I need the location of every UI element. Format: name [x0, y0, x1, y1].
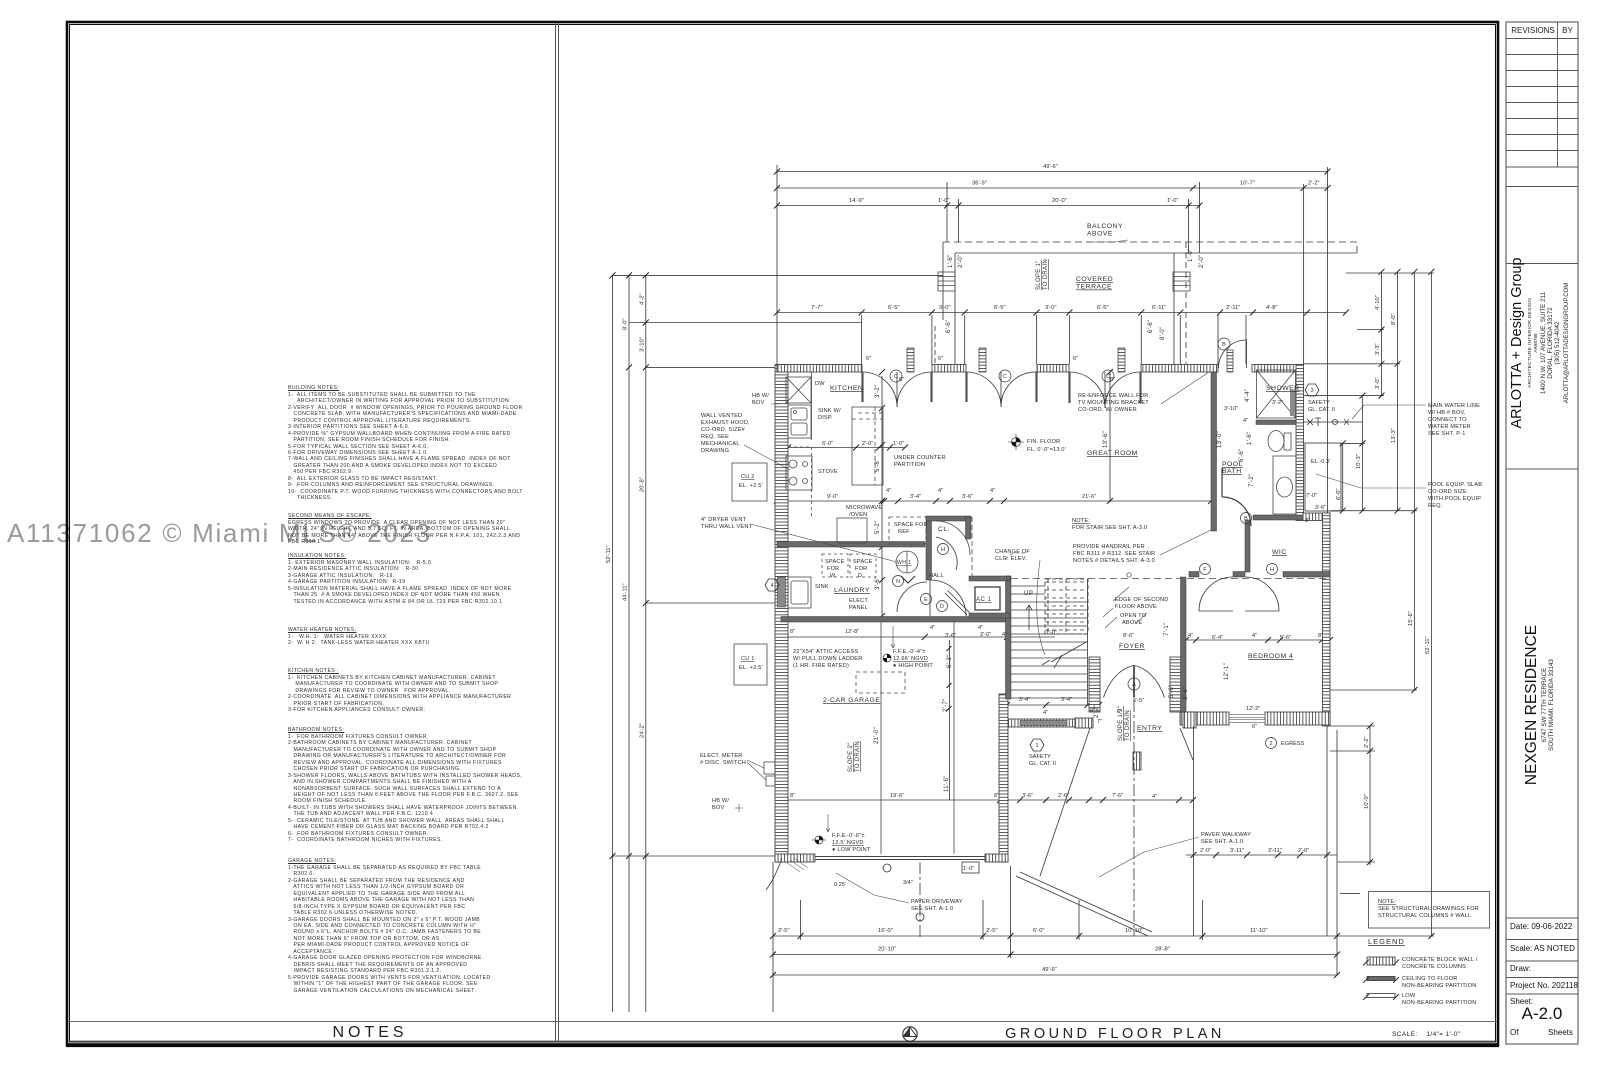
svg-text:8": 8" — [790, 793, 795, 799]
svg-text:REQ. SEE: REQ. SEE — [701, 434, 729, 440]
svg-text:EGRESS: EGRESS — [1281, 741, 1305, 747]
svg-text:BALCONY: BALCONY — [1087, 223, 1123, 230]
svg-text:6'-0": 6'-0" — [1336, 488, 1342, 500]
svg-text:POOL EQUIP. SLAB: POOL EQUIP. SLAB — [1428, 482, 1482, 488]
svg-text:TO DRAIN: TO DRAIN — [855, 741, 861, 772]
svg-text:4": 4" — [1043, 710, 1048, 716]
kitchen laundry wall — [777, 542, 925, 548]
svg-text:3'-6": 3'-6" — [945, 633, 956, 639]
svg-text:13'-0": 13'-0" — [1217, 431, 1223, 448]
shower box — [1257, 370, 1296, 418]
counter edge — [811, 372, 813, 440]
svg-text:ABOVE: ABOVE — [1122, 620, 1142, 626]
svg-text:28'-8": 28'-8" — [1155, 947, 1170, 953]
svg-text:6'-5": 6'-5" — [1133, 698, 1144, 704]
svg-text:4": 4" — [1002, 632, 1007, 638]
svg-text:7'-1": 7'-1" — [1164, 623, 1170, 636]
svg-text:SINK W/: SINK W/ — [818, 408, 841, 414]
svg-text:EL. +2.5': EL. +2.5' — [739, 665, 763, 671]
svg-text:C: C — [1003, 374, 1007, 380]
svg-text:CU 2: CU 2 — [741, 474, 755, 480]
svg-text:3'-0": 3'-0" — [939, 305, 951, 311]
svg-text:4": 4" — [938, 488, 943, 494]
svg-text:1: 1 — [1035, 743, 1038, 749]
svg-text:7'-0": 7'-0" — [1306, 493, 1317, 499]
bed4 south wall right of window — [1265, 712, 1330, 725]
entry left pier — [1089, 657, 1100, 712]
bottom extension verticals — [772, 862, 774, 1012]
svg-text:WATER METER: WATER METER — [1428, 424, 1471, 430]
svg-text:BOV: BOV — [712, 805, 724, 811]
north wall segment kitchen — [777, 365, 862, 373]
leader lines — [735, 240, 1426, 903]
svg-text:NOTE:: NOTE: — [1378, 899, 1396, 905]
svg-text:4'-8": 4'-8" — [1266, 305, 1278, 311]
garage south wall left block — [775, 854, 815, 862]
svg-text:CEILING TO FLOOR: CEILING TO FLOOR — [1402, 976, 1458, 982]
walkway verticals — [1193, 726, 1195, 936]
garage dim rows — [786, 636, 1056, 638]
svg-text:HB W/: HB W/ — [712, 798, 729, 804]
svg-text:1'-0": 1'-0" — [938, 198, 950, 204]
svg-text:THRU WALL VENT: THRU WALL VENT — [701, 524, 753, 530]
safety glass hexagons — [765, 384, 1319, 751]
svg-text:MICROWAVE: MICROWAVE — [846, 505, 882, 511]
laundry door arc — [897, 582, 927, 612]
bed4 east wall — [1323, 513, 1331, 726]
legend and note box — [1340, 892, 1490, 929]
svg-text:8": 8" — [994, 793, 999, 799]
svg-text:12'-2": 12'-2" — [1246, 706, 1260, 712]
svg-text:3'-2": 3'-2" — [875, 385, 881, 398]
svg-text:PAVER WALKWAY: PAVER WALKWAY — [1201, 832, 1251, 838]
svg-text:SHOWER: SHOWER — [1266, 385, 1300, 392]
garage FFE high symbol — [883, 654, 891, 662]
garage hall door arc — [930, 580, 966, 616]
svg-text:3'-0": 3'-0" — [1375, 377, 1381, 389]
sheet info table lines — [1506, 918, 1578, 994]
svg-text:2'-2": 2'-2" — [1308, 181, 1320, 187]
revisions table — [1506, 22, 1578, 187]
wic west wall — [1245, 520, 1250, 572]
svg-text:PANEL: PANEL — [849, 605, 868, 611]
east wall upper — [1296, 365, 1304, 521]
svg-text:7'-7": 7'-7" — [811, 305, 823, 311]
svg-text:14'-9": 14'-9" — [849, 198, 864, 204]
svg-text:16'-0": 16'-0" — [878, 928, 893, 934]
north wall french door arcs — [862, 340, 1279, 698]
tick marks — [610, 169, 1435, 979]
revisions header text — [1510, 26, 1556, 35]
terrace right edge — [1173, 253, 1175, 364]
laundry garage wall — [781, 617, 1008, 623]
driveway centerline — [919, 862, 921, 940]
pool bath door — [1222, 468, 1251, 526]
svg-text:2'-6": 2'-6" — [1058, 793, 1069, 799]
AC1 box — [975, 587, 1000, 610]
edge of second floor dashed — [1011, 578, 1328, 580]
svg-text:4'-2": 4'-2" — [639, 293, 645, 305]
svg-text:7": 7" — [1097, 719, 1102, 725]
svg-text:SINK: SINK — [815, 584, 829, 590]
svg-text:6'-6": 6'-6" — [1148, 320, 1154, 333]
svg-text:8": 8" — [790, 629, 795, 635]
svg-text:UNDER COUNTER: UNDER COUNTER — [894, 455, 946, 461]
dimension line 14'-9"/20'-0" row — [777, 205, 1200, 207]
svg-text:EXHAUST HOOD,: EXHAUST HOOD, — [701, 420, 750, 426]
svg-text:4": 4" — [1188, 633, 1193, 639]
svg-text:8": 8" — [1090, 708, 1095, 714]
svg-text:6'-0": 6'-0" — [822, 441, 833, 447]
stove — [786, 456, 812, 490]
north wall segment 4 — [1141, 365, 1218, 373]
svg-text:TV MOUNTING BRACKET: TV MOUNTING BRACKET — [1078, 400, 1149, 406]
arlotta + nexgen rotated text — [1500, 0, 1600, 1044]
svg-text:3: 3 — [1310, 388, 1313, 394]
svg-text:3'-6": 3'-6" — [962, 494, 973, 500]
right sidebar outer box — [1506, 22, 1578, 1044]
svg-text:6'-5": 6'-5" — [994, 305, 1006, 311]
svg-text:EL.-0.3': EL.-0.3' — [1311, 459, 1330, 465]
svg-text:SEE SHT. A-1.0: SEE SHT. A-1.0 — [911, 906, 953, 912]
right lower chain — [1369, 726, 1371, 865]
svg-text:2'-0": 2'-0" — [862, 441, 873, 447]
entry double curved doors — [1104, 666, 1165, 698]
kitchen dim row y501 great room — [777, 500, 1211, 502]
toilet — [1268, 431, 1284, 452]
svg-text:GL. CAT. II: GL. CAT. II — [1308, 407, 1335, 413]
svg-text:TO DRAIN: TO DRAIN — [1125, 710, 1131, 741]
svg-text:6': 6' — [1117, 709, 1121, 715]
bed4 south wall left of window — [1180, 712, 1229, 725]
svg-text:2'-5": 2'-5" — [986, 928, 998, 934]
elect meter — [764, 762, 775, 774]
svg-text:WITH POOL EQUIP: WITH POOL EQUIP — [1428, 496, 1481, 502]
svg-text:5'-8": 5'-8" — [875, 459, 881, 472]
svg-text:22"X54" ATTIC ACCESS: 22"X54" ATTIC ACCESS — [793, 649, 858, 655]
svg-text:OPEN TO: OPEN TO — [1120, 613, 1147, 619]
svg-text:(1 HR. FIRE RATED): (1 HR. FIRE RATED) — [793, 663, 849, 669]
svg-text:H: H — [941, 547, 945, 553]
svg-text:CL.: CL. — [938, 526, 950, 533]
ac closet walls — [969, 576, 1010, 581]
svg-text:10'-0": 10'-0" — [1364, 794, 1370, 809]
stair west wall — [1006, 576, 1012, 699]
svg-text:CO-ORD SIZE: CO-ORD SIZE — [1428, 489, 1467, 495]
svg-text:CONCRETE BLOCK WALL /: CONCRETE BLOCK WALL / — [1402, 957, 1478, 963]
svg-text:3'-6": 3'-6" — [1022, 793, 1033, 799]
DW box — [786, 377, 811, 403]
title strip top line — [68, 1021, 1497, 1023]
annotation text blocks — [700, 381, 1482, 912]
svg-text:6": 6" — [866, 356, 871, 362]
balcony above dashed outline — [943, 242, 1357, 253]
svg-text:3'-6": 3'-6" — [1315, 505, 1326, 511]
watermark Miami MLS — [7, 518, 432, 549]
svg-text:20'-10": 20'-10" — [878, 947, 896, 953]
divider notes/plan double line — [555, 23, 557, 1042]
kitchen fixtures — [732, 372, 1010, 854]
svg-text:● LOW POINT: ● LOW POINT — [832, 847, 871, 853]
diagonal door near AC — [945, 591, 970, 616]
svg-text:FOYER: FOYER — [1119, 643, 1145, 650]
north wall segment 2 — [932, 365, 966, 373]
garage door lines — [815, 857, 985, 860]
svg-text:1'-0": 1'-0" — [963, 866, 974, 872]
svg-text:STRUCTURAL COLUMNS # WALL: STRUCTURAL COLUMNS # WALL — [1378, 913, 1471, 919]
svg-text:3'-0": 3'-0" — [980, 632, 991, 638]
svg-text:52'-11": 52'-11" — [1425, 636, 1431, 654]
svg-text:DRAWING: DRAWING — [701, 448, 729, 454]
bed4 door arc — [1199, 577, 1233, 611]
bed4 window dim row — [1186, 854, 1337, 856]
svg-text:2'-11": 2'-11" — [1226, 305, 1240, 311]
svg-text:1'-6": 1'-6" — [948, 255, 954, 268]
svg-text:6'-5": 6'-5" — [1097, 305, 1109, 311]
svg-text:MECHANICAL: MECHANICAL — [701, 441, 740, 447]
svg-text:12'-1": 12'-1" — [1224, 663, 1230, 680]
svg-text:2'-0": 2'-0" — [1200, 848, 1211, 854]
svg-text:49'-6": 49'-6" — [1042, 967, 1057, 973]
svg-text:6'-6": 6'-6" — [946, 320, 952, 333]
pool bath south wall — [1253, 515, 1303, 520]
svg-text:D: D — [858, 573, 862, 579]
svg-text:1'-0": 1'-0" — [1046, 630, 1057, 636]
garage FFE low symbol — [812, 836, 826, 844]
svg-text:ELECT.: ELECT. — [849, 598, 869, 604]
svg-text:2: 2 — [1269, 741, 1272, 747]
svg-text:3'-2": 3'-2" — [1272, 400, 1283, 406]
svg-text:2'-2": 2'-2" — [1364, 736, 1370, 748]
svg-text:3'-4": 3'-4" — [910, 494, 921, 500]
svg-text:6'-0": 6'-0" — [1033, 928, 1045, 934]
attic access dashed — [856, 672, 905, 693]
svg-text:5'-2": 5'-2" — [875, 521, 881, 534]
svg-text:3'-4": 3'-4" — [1061, 697, 1072, 703]
svg-text:W: W — [830, 573, 836, 579]
svg-text:2'-0": 2'-0" — [1298, 848, 1309, 854]
svg-text:1'-0": 1'-0" — [1188, 249, 1194, 262]
entry steps and walkway — [766, 700, 1327, 940]
svg-text:8'-6": 8'-6" — [1123, 633, 1134, 639]
svg-text:● HIGH POINT: ● HIGH POINT — [893, 663, 933, 669]
west wall laundry window — [778, 577, 786, 607]
wic bed4 north wall — [1189, 572, 1199, 578]
svg-text:SPACE: SPACE — [825, 559, 845, 565]
svg-text:52'-11": 52'-11" — [606, 545, 612, 563]
svg-text:SPACE: SPACE — [853, 559, 873, 565]
CU1 box — [734, 644, 767, 685]
svg-text:MAIN WATER LINE: MAIN WATER LINE — [1428, 403, 1480, 409]
svg-text:C: C — [894, 374, 898, 380]
svg-text:6": 6" — [938, 356, 943, 362]
svg-text:3'-10": 3'-10" — [639, 337, 645, 352]
svg-text:W/ HB # BOV,: W/ HB # BOV, — [1428, 410, 1466, 416]
svg-text:FLOOR ABOVE: FLOOR ABOVE — [1115, 604, 1157, 610]
svg-text:6": 6" — [1252, 724, 1257, 730]
svg-text:ENTRY: ENTRY — [1137, 725, 1162, 732]
svg-text:WH 1: WH 1 — [897, 560, 912, 566]
svg-text:10'-3": 10'-3" — [1356, 454, 1362, 469]
svg-text:36'-9": 36'-9" — [972, 181, 987, 187]
svg-text:3'-6": 3'-6" — [1183, 687, 1189, 700]
walkway diagonals — [1016, 872, 1152, 936]
svg-text:SLOPE 2": SLOPE 2" — [848, 742, 854, 772]
svg-text:44'-11": 44'-11" — [623, 583, 629, 601]
garage slope lines — [880, 622, 882, 854]
svg-text:4": 4" — [978, 625, 983, 631]
closet door arc — [936, 537, 957, 570]
bed4 dim row — [1186, 639, 1330, 641]
svg-text:SAFETY: SAFETY — [1029, 754, 1051, 760]
svg-text:TERRACE: TERRACE — [1076, 284, 1112, 291]
svg-text:BATH: BATH — [1222, 468, 1242, 475]
svg-text:HALL: HALL — [929, 573, 944, 579]
svg-text:DISP.: DISP. — [818, 415, 833, 421]
svg-text:8'-0": 8'-0" — [1391, 313, 1397, 325]
svg-text:UP: UP — [1024, 591, 1033, 597]
svg-text:4": 4" — [1252, 633, 1257, 639]
svg-text:FIN. FLOOR: FIN. FLOOR — [1027, 439, 1060, 445]
svg-text:HB W/: HB W/ — [752, 393, 769, 399]
svg-text:4": 4" — [886, 488, 891, 494]
stair hall south wall — [1008, 719, 1089, 727]
pool bath fixtures — [1257, 370, 1297, 514]
closet north wall — [926, 516, 971, 521]
garage east wall — [999, 694, 1008, 862]
svg-text:COVERED: COVERED — [1076, 276, 1113, 283]
CU2 box — [732, 463, 767, 501]
svg-text:2'-0": 2'-0" — [1199, 255, 1205, 268]
rotated left dim labels — [606, 293, 645, 738]
svg-text:SEE STRUCTURAL DRAWINGS FOR: SEE STRUCTURAL DRAWINGS FOR — [1378, 906, 1479, 912]
svg-text:EDGE OF SECOND: EDGE OF SECOND — [1115, 597, 1168, 603]
svg-text:19'-6": 19'-6" — [890, 793, 904, 799]
north wall segment 3 — [1037, 365, 1069, 373]
svg-text:11'-10": 11'-10" — [1250, 928, 1268, 934]
svg-text:3'-11": 3'-11" — [1268, 848, 1282, 854]
sheet info text — [1510, 922, 1572, 931]
svg-text:1'-0": 1'-0" — [893, 441, 904, 447]
svg-text:STOVE: STOVE — [818, 469, 838, 475]
garage south wall right block — [985, 854, 1008, 862]
svg-text:FL. 0'-0"=13.0': FL. 0'-0"=13.0' — [1027, 447, 1066, 453]
svg-text:WALL VENTED: WALL VENTED — [701, 413, 742, 419]
svg-text:REQ.: REQ. — [1428, 503, 1443, 509]
bottom dim labels — [778, 928, 1268, 973]
bed4 egress window — [1229, 715, 1265, 718]
svg-text:E: E — [924, 597, 928, 603]
main water line symbols — [1303, 418, 1362, 426]
svg-text:CO-ORD. SIZE#: CO-ORD. SIZE# — [701, 427, 746, 433]
extension verticals top — [776, 165, 778, 367]
svg-text:LAUNDRY: LAUNDRY — [834, 587, 870, 594]
svg-text:24'-2": 24'-2" — [639, 723, 645, 738]
svg-text:8'-0": 8'-0" — [1160, 327, 1166, 340]
svg-text:2'-0": 2'-0" — [958, 255, 964, 268]
svg-text:SAFETY: SAFETY — [1308, 400, 1330, 406]
svg-text:BEDROOM 4: BEDROOM 4 — [1248, 653, 1293, 660]
svg-text:F: F — [1203, 567, 1207, 573]
svg-text:CO-ORD. W/ OWNER: CO-ORD. W/ OWNER — [1078, 407, 1137, 413]
dimension line 36'-9" row — [777, 187, 1328, 189]
svg-text:8": 8" — [1110, 377, 1115, 383]
svg-text:4": 4" — [990, 488, 995, 494]
svg-text:21'-6": 21'-6" — [1082, 494, 1096, 500]
washer dryer dashed — [822, 554, 848, 577]
bottom dim lines — [773, 935, 1434, 937]
svg-text:5'-6": 5'-6" — [1280, 635, 1291, 641]
svg-text:NON-BEARING PARTITION: NON-BEARING PARTITION — [1402, 1000, 1477, 1006]
svg-text:4": 4" — [1152, 794, 1157, 800]
svg-text:NOTE:: NOTE: — [1072, 518, 1090, 524]
svg-text:REF: REF — [898, 529, 910, 535]
vanity — [1273, 456, 1296, 514]
svg-text:AC 1: AC 1 — [976, 597, 992, 603]
microwave — [837, 518, 867, 543]
svg-text:3'-11": 3'-11" — [1230, 848, 1244, 854]
svg-text:4" DRYER VENT: 4" DRYER VENT — [701, 517, 747, 523]
svg-text:2-CAR GARAGE: 2-CAR GARAGE — [823, 697, 880, 704]
kitchen vertical dim chain — [881, 376, 883, 616]
svg-text:2'-5": 2'-5" — [778, 928, 790, 934]
great room fin floor symbol — [1008, 434, 1024, 450]
svg-text:TO DRAIN: TO DRAIN — [1043, 259, 1049, 290]
door B top right — [1219, 340, 1247, 368]
hatched mullion piers — [863, 348, 1234, 403]
svg-text:SLOPE 1": SLOPE 1" — [1036, 260, 1042, 290]
svg-text:PARTITION: PARTITION — [894, 462, 925, 468]
svg-text:8": 8" — [899, 377, 904, 383]
dimension text top — [811, 164, 1320, 311]
terrace left edge — [942, 242, 944, 320]
ref space dashed — [889, 517, 926, 544]
svg-text:49'-6": 49'-6" — [1043, 164, 1058, 170]
laundry hall wall — [926, 517, 932, 580]
svg-text:6'-3": 6'-3" — [947, 655, 953, 668]
stair treads foyer — [1011, 579, 1088, 705]
title strip: NOTES — [240, 1024, 500, 1042]
svg-text:EL. +2.5': EL. +2.5' — [739, 483, 763, 489]
svg-text:6'-5": 6'-5" — [888, 305, 900, 311]
svg-text:CHANGE OF: CHANGE OF — [995, 549, 1030, 555]
north wall segment 5 — [1252, 365, 1303, 373]
svg-text:1'-6": 1'-6" — [1247, 432, 1253, 445]
svg-text:N: N — [896, 579, 900, 585]
small dims inside plan — [790, 356, 1335, 888]
rotated right dim labels — [1336, 295, 1431, 809]
dim row y312 openings — [777, 312, 1346, 314]
island dashed — [852, 407, 883, 485]
svg-text:A: A — [1132, 682, 1136, 688]
svg-text:CU 1: CU 1 — [741, 656, 755, 662]
svg-text:CLG. ELEV.: CLG. ELEV. — [995, 556, 1027, 562]
svg-text:4": 4" — [930, 625, 935, 631]
svg-text:D: D — [940, 604, 944, 610]
room labels underlined — [823, 223, 1300, 732]
svg-text:KITCHEN: KITCHEN — [830, 385, 863, 392]
svg-text:7'-6": 7'-6" — [1112, 793, 1123, 799]
stair hall dim row — [1007, 704, 1099, 706]
second flight dashed rect — [1045, 579, 1088, 634]
svg-text:8": 8" — [1305, 518, 1310, 524]
svg-text:NON-BEARING PARTITION: NON-BEARING PARTITION — [1402, 983, 1477, 989]
right dim chains — [1342, 443, 1344, 510]
svg-text:8'-0": 8'-0" — [623, 318, 629, 330]
svg-text:GL. CAT. II: GL. CAT. II — [1029, 761, 1056, 767]
svg-text:NOTES # DETAILS SHT. A-3.0: NOTES # DETAILS SHT. A-3.0 — [1073, 558, 1155, 564]
svg-text:3'-3": 3'-3" — [1375, 343, 1381, 355]
